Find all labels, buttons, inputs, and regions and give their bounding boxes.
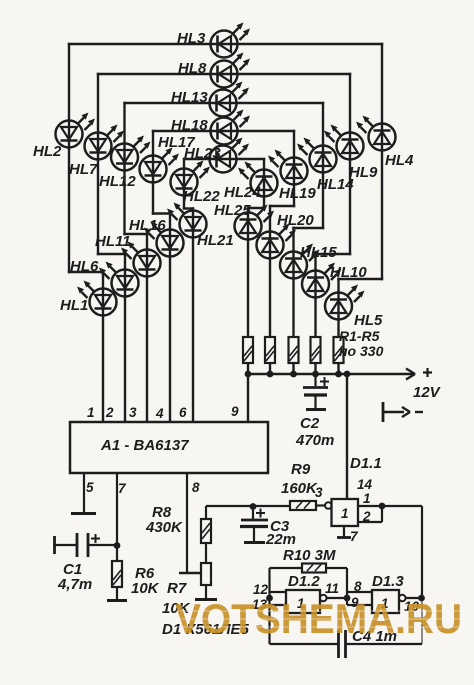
capacitor C4 (270, 630, 423, 658)
wire chain5 column to R1 (247, 208, 249, 374)
LED HL14 (297, 138, 354, 194)
LED HL21 (167, 203, 234, 250)
wire chain4 left vertical through HL17 (152, 131, 154, 214)
wire R8 top to R9 (206, 505, 290, 507)
label D1 K561LE5 (162, 621, 250, 638)
svg-text:HL6: HL6 (70, 258, 99, 275)
LED HL13 (171, 82, 249, 117)
resistor R1 (243, 337, 253, 363)
svg-text:HL13: HL13 (171, 89, 208, 106)
wire chain3 jog HL11-HL12 (125, 233, 148, 235)
wire chain1 pin1 vertical (102, 272, 104, 422)
svg-text:HL15: HL15 (300, 244, 337, 261)
LED HL22 (171, 161, 221, 206)
resistor R6 (107, 546, 127, 601)
LED HL16 (129, 217, 184, 257)
node D1.2 input dot (266, 595, 273, 602)
wire chain5 jog HL21-HL22 (184, 207, 193, 209)
LED HL12 (99, 136, 151, 191)
wire pin 7 to C1/R6 node (116, 473, 118, 546)
wire chain1 left vertical through HL2 (68, 44, 70, 272)
svg-text:6: 6 (179, 405, 187, 420)
svg-text:4,7m: 4,7m (57, 576, 92, 593)
wire +12V rail (248, 373, 414, 375)
wire chain5 jog HL24-HL25 (248, 207, 264, 209)
resistor R2 (265, 337, 275, 363)
wire chain2 right vertical through HL9 (349, 74, 351, 254)
svg-text:D1.3: D1.3 (372, 573, 404, 590)
resistor R10 (270, 564, 348, 573)
ground at pin 5 (71, 473, 96, 514)
wire chain1 jog HL1-HL2 (69, 271, 103, 273)
LED HL8 (178, 53, 250, 88)
svg-text:HL23: HL23 (184, 145, 221, 162)
svg-text:8: 8 (354, 579, 362, 594)
+12V terminal arrow (406, 368, 432, 380)
pin number labels top of A1 (87, 404, 239, 421)
LED HL18 (171, 110, 250, 145)
pin 3 label D1.1 (315, 485, 323, 500)
svg-text:14: 14 (357, 477, 373, 492)
svg-text:HL4: HL4 (385, 152, 414, 169)
LED HL20 (257, 212, 315, 259)
svg-text:по 330: по 330 (339, 343, 384, 359)
logic gate D1.2 (270, 590, 327, 613)
D1.1 output pins 1,2 (358, 506, 422, 522)
wire R10 left leg down to D1.2 input and C4 (268, 568, 270, 644)
wire chain4 pin4 vertical (169, 214, 171, 423)
LED HL17 (140, 134, 196, 183)
LED HL4 (356, 116, 414, 170)
svg-text:HL18: HL18 (171, 117, 208, 134)
wire row1 horizontal through HL3 (69, 43, 382, 45)
svg-text:1: 1 (341, 506, 349, 521)
wire chain5 pin6 vertical (192, 209, 194, 423)
svg-text:HL1: HL1 (60, 297, 88, 314)
svg-text:HL25: HL25 (214, 202, 251, 219)
svg-text:8: 8 (192, 480, 200, 495)
capacitor C2 (303, 374, 329, 410)
svg-text:11: 11 (325, 581, 339, 596)
resistor R9 (290, 501, 316, 510)
node D1.1 output dot (379, 503, 386, 510)
wire pin 8 down to R7/R8 junction (179, 473, 200, 573)
svg-text:HL3: HL3 (177, 30, 206, 47)
resistor R4 (311, 337, 321, 363)
LED HL19 (268, 150, 316, 203)
svg-text:A1 - BA6137: A1 - BA6137 (100, 437, 189, 454)
svg-text:HL21: HL21 (197, 232, 234, 249)
LED HL7 (69, 125, 124, 179)
capacitor C1 with input terminal (55, 533, 118, 557)
node junction dots on +12V rail (245, 371, 351, 378)
IC A1 BA6137 (70, 422, 268, 473)
wire chain3 pin3 vertical (146, 234, 148, 422)
svg-text:R10 3M: R10 3M (283, 547, 336, 564)
wire row3 horizontal through HL13 (125, 102, 324, 104)
wire D1.1 pin14 power from rail (346, 374, 348, 499)
svg-text:9: 9 (231, 404, 239, 419)
svg-text:3: 3 (315, 485, 323, 500)
svg-text:HL24: HL24 (224, 184, 261, 201)
LED HL1 (60, 281, 117, 316)
logic gate D1.3 (347, 590, 406, 613)
svg-text:3: 3 (129, 405, 137, 420)
svg-text:HL19: HL19 (279, 185, 316, 202)
svg-text:R1-R5: R1-R5 (339, 328, 380, 344)
svg-text:160K: 160K (281, 480, 318, 497)
resistor R7 (195, 563, 217, 600)
resistor R8 (201, 506, 211, 563)
logic gate D1.1 (316, 499, 358, 526)
svg-text:HL7: HL7 (69, 161, 98, 178)
LED HL10 (302, 263, 367, 298)
LED HL6 (70, 258, 139, 297)
label R1-R5 po 330 (339, 328, 384, 359)
wire pin9 from rail to IC (247, 374, 249, 422)
LED HL3 (177, 23, 250, 58)
svg-text:2: 2 (362, 509, 371, 524)
svg-text:HL12: HL12 (99, 173, 136, 190)
node C3 junction dot (250, 503, 257, 510)
LED HL2 (33, 113, 95, 161)
svg-text:HL14: HL14 (317, 176, 354, 193)
node D1.3 output dot (418, 595, 425, 602)
wire D1.2 output to node (327, 597, 347, 599)
svg-text:HL11: HL11 (95, 233, 131, 250)
minus terminal (383, 402, 423, 422)
wire right riser down to C4 rail (421, 598, 423, 644)
svg-text:D1.2: D1.2 (288, 573, 320, 590)
wire chain5 left vertical through HL22 (183, 159, 185, 209)
svg-text:4: 4 (155, 406, 164, 421)
capacitor C3 (240, 507, 268, 543)
resistor R3 (289, 337, 299, 363)
LED HL5 (325, 285, 383, 330)
svg-text:HL16: HL16 (129, 217, 166, 234)
LED HL24 (224, 162, 278, 202)
wire chain4 right vertical through HL19 (293, 131, 295, 206)
svg-text:430K: 430K (145, 519, 183, 536)
wire chain2 column to R4 (314, 254, 316, 374)
pin number labels bottom of A1 (86, 480, 200, 496)
wire chain4 jog HL19-HL20 (270, 205, 294, 207)
wire D1.1 output down right side (421, 506, 423, 598)
svg-text:22m: 22m (265, 531, 296, 548)
wire chain2 jog HL9-HL10 (316, 253, 351, 255)
svg-text:10K: 10K (131, 580, 160, 597)
LED HL15 (280, 244, 337, 279)
LED HL23 (184, 138, 249, 173)
wire R10 right leg down to D1.2 output node (346, 568, 348, 605)
wire chain1 jog HL4-HL5 (339, 278, 383, 280)
node C1/R6 junction dot (114, 542, 121, 549)
svg-text:5: 5 (86, 480, 94, 495)
wire row2 horizontal through HL8 (98, 73, 350, 75)
wire chain1 right vertical through HL4 (381, 44, 383, 279)
wire chain5 right vertical through HL24 (263, 159, 265, 208)
wire row5 horizontal through HL23 (184, 158, 264, 160)
svg-text:470m: 470m (295, 432, 334, 449)
wire chain3 jog HL14-HL15 (294, 227, 324, 229)
LED HL9 (324, 125, 378, 182)
watermark votshema.ru (175, 595, 462, 642)
wire chain4 column to R2 (269, 206, 271, 374)
wire chain3 column to R3 (292, 228, 294, 374)
wire chain3 left vertical through HL12 (123, 103, 125, 234)
svg-text:HL5: HL5 (354, 312, 383, 329)
svg-text:2: 2 (105, 405, 114, 420)
svg-text:D1.1: D1.1 (350, 455, 382, 472)
svg-text:HL2: HL2 (33, 143, 62, 160)
D1.1 pin 7 stub (337, 526, 351, 538)
wire chain2 jog HL6-HL7 (98, 253, 125, 255)
wire row4 horizontal through HL18 (153, 130, 294, 132)
svg-text:HL8: HL8 (178, 60, 207, 77)
node D1.2 output dot (344, 595, 351, 602)
svg-text:C2: C2 (300, 415, 320, 432)
LED HL11 (95, 233, 161, 277)
wire chain2 pin2 vertical (124, 254, 126, 422)
wire chain1 column to R5 (337, 279, 339, 374)
wire chain3 right vertical through HL14 (322, 103, 324, 228)
wire chain4 jog HL16-HL17 (153, 212, 170, 214)
wire D1.3 output to right riser (406, 597, 422, 599)
wire chain2 left vertical through HL7 (97, 74, 99, 254)
svg-text:HL20: HL20 (277, 212, 314, 229)
svg-text:1: 1 (363, 491, 371, 506)
resistor R5 (334, 337, 344, 363)
svg-text:1: 1 (87, 405, 95, 420)
LED HL25 (214, 202, 274, 240)
svg-text:HL10: HL10 (330, 264, 367, 281)
svg-text:R9: R9 (291, 461, 311, 478)
svg-text:12V: 12V (413, 384, 442, 401)
